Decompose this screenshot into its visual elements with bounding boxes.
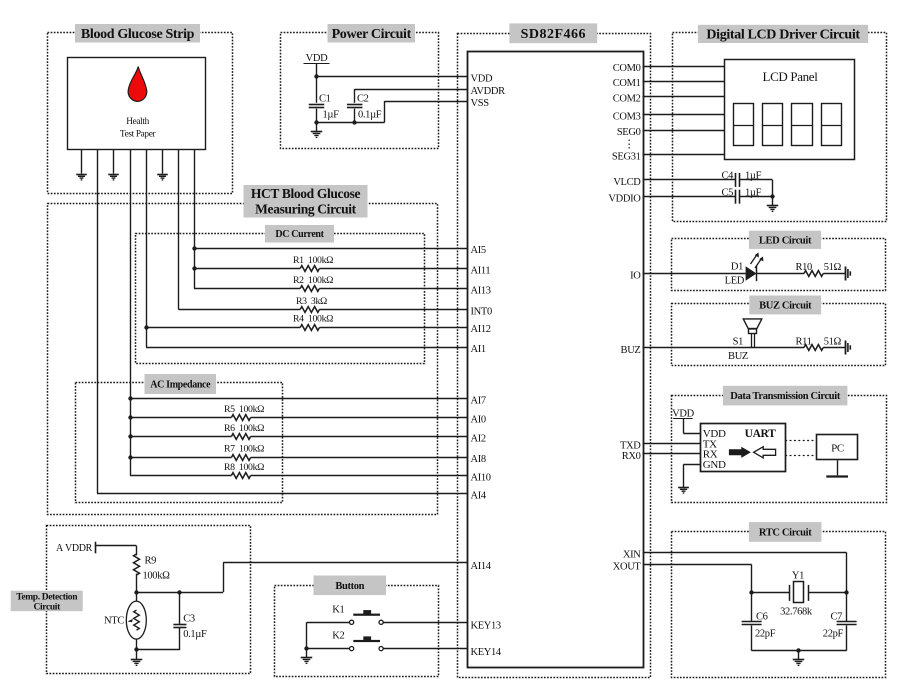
- push button K1: [332, 604, 383, 624]
- ground power circuit: [311, 122, 322, 137]
- svg-text:AI0: AI0: [471, 415, 486, 426]
- label RTC Circuit: [749, 522, 822, 542]
- pin ellipsis between SEG0 and SEG31: [624, 139, 635, 151]
- svg-text:XIN: XIN: [623, 550, 641, 561]
- svg-text:HCT Blood Glucose: HCT Blood Glucose: [251, 186, 361, 201]
- label Button: [314, 576, 387, 596]
- svg-text:R4 100kΩ: R4 100kΩ: [293, 314, 333, 325]
- svg-text:NTC: NTC: [104, 616, 124, 627]
- svg-text:Temp. Detection: Temp. Detection: [16, 593, 78, 603]
- wire R9 to NTC node: [136, 574, 138, 602]
- wire AI1 row: [146, 347, 467, 349]
- LED D1: [725, 253, 764, 287]
- capacitor C1: [309, 94, 339, 121]
- resistor R8 100k&#937;: [224, 462, 264, 478]
- svg-text:Digital LCD Driver Circuit: Digital LCD Driver Circuit: [706, 28, 860, 43]
- pin label RX0: [622, 451, 641, 462]
- label HCT Blood Glucose Measuring Circuit: [244, 185, 368, 218]
- svg-text:BUZ: BUZ: [728, 351, 748, 362]
- svg-text:AI8: AI8: [471, 454, 486, 465]
- pin label AI8: [471, 454, 486, 465]
- pin label AVDDR: [471, 86, 506, 97]
- pin label KEY13: [471, 621, 501, 632]
- svg-text:C5: C5: [721, 187, 733, 198]
- svg-text:32.768k: 32.768k: [780, 607, 813, 618]
- dashed link UART to PC upper: [785, 440, 817, 442]
- wire AI0 row right: [251, 417, 467, 419]
- resistor R10 51&#937;: [796, 262, 842, 276]
- svg-text:C6: C6: [756, 612, 768, 623]
- junction crystal left: [749, 590, 753, 594]
- svg-text:22pF: 22pF: [755, 629, 776, 640]
- svg-text:VLCD: VLCD: [613, 177, 641, 188]
- svg-text:A VDDR: A VDDR: [56, 543, 93, 554]
- strip contact wire 1: [81, 149, 83, 174]
- label Digital LCD Driver Circuit: [698, 25, 868, 43]
- wire C4 to ground bus: [739, 180, 772, 197]
- junction NTC top node: [134, 590, 138, 594]
- wire LED to R10: [757, 273, 804, 275]
- pin label IO: [630, 271, 641, 282]
- svg-text:AI14: AI14: [471, 561, 492, 572]
- push button K2: [332, 631, 383, 651]
- pin label AI0: [471, 415, 486, 426]
- svg-text:AI5: AI5: [471, 245, 486, 256]
- LED Circuit section box: [672, 239, 886, 291]
- LCD digit segment 4: [821, 104, 841, 146]
- svg-text:AI13: AI13: [471, 286, 491, 297]
- IC U1 SD82F466 body: [468, 52, 644, 668]
- svg-text:Test Paper: Test Paper: [120, 129, 157, 139]
- blood drop icon: [128, 67, 147, 102]
- svg-text:COM0: COM0: [613, 63, 641, 74]
- wire K1 to KEY13: [383, 622, 467, 624]
- wire NTC node to AI14: [136, 563, 467, 593]
- junction AI7 row: [128, 396, 132, 400]
- dashed link UART to PC lower: [785, 455, 817, 457]
- wire RTC ground bus: [752, 650, 847, 652]
- resistor R7 100k&#937;: [224, 444, 264, 461]
- junction NTC bottom node: [134, 647, 138, 651]
- svg-text:51Ω: 51Ω: [824, 336, 842, 347]
- HCT Blood Glucose Measuring Circuit section box: [48, 204, 438, 515]
- junction AI12 row: [144, 325, 148, 329]
- BUZ Circuit section box: [672, 304, 886, 366]
- ground LCD driver: [767, 197, 778, 212]
- Button section box: [275, 586, 439, 677]
- pin label COM0: [613, 63, 641, 74]
- junction AI2 row: [128, 434, 132, 438]
- ground UART: [678, 488, 689, 494]
- svg-text:K2: K2: [332, 631, 344, 642]
- label Power Circuit: [328, 24, 416, 43]
- wire INT0 row left: [179, 309, 301, 311]
- pin label COM2: [613, 94, 641, 105]
- svg-text:SD82F466: SD82F466: [521, 27, 586, 42]
- capacitor C4 1uF: [721, 171, 761, 187]
- ground at strip contact 6: [157, 175, 168, 180]
- svg-text:Data Transmission Circuit: Data Transmission Circuit: [730, 391, 841, 402]
- Digital LCD Driver Circuit section box: [673, 33, 887, 222]
- UART data arrow left: [754, 447, 776, 458]
- svg-text:R10: R10: [796, 262, 813, 273]
- svg-text:AI7: AI7: [471, 396, 486, 407]
- svg-text:INT0: INT0: [471, 307, 492, 318]
- wire AI2 row right: [251, 436, 467, 438]
- wire AI12 row left: [146, 327, 300, 329]
- svg-text:R9: R9: [145, 556, 157, 567]
- junction RTC ground: [796, 648, 800, 652]
- ground BUZ circuit: [846, 341, 851, 355]
- svg-text:R8 100kΩ: R8 100kΩ: [224, 462, 264, 473]
- blood glucose strip body: [68, 58, 206, 150]
- pin label VDDIO: [608, 194, 641, 205]
- strip contact wire 7 to INT0 resistor: [178, 149, 180, 310]
- resistor R9 100k&#937;: [134, 554, 171, 582]
- strip text Health Test Paper: [120, 117, 157, 139]
- svg-text:LCD Panel: LCD Panel: [763, 69, 819, 84]
- wire COM3: [643, 114, 725, 116]
- capacitor C2: [347, 94, 382, 121]
- label SD82F466: [509, 23, 597, 43]
- svg-text:R5 100kΩ: R5 100kΩ: [224, 404, 264, 415]
- LCD digit segment 2: [762, 104, 782, 146]
- PC terminal: [817, 435, 858, 477]
- pin label AI14: [471, 561, 492, 572]
- resistor R4 100k&#937;: [293, 314, 333, 331]
- pin label INT0: [471, 307, 492, 318]
- pin label AI11: [471, 266, 491, 277]
- svg-text:22pF: 22pF: [823, 629, 844, 640]
- svg-text:BUZ Circuit: BUZ Circuit: [759, 301, 812, 312]
- svg-text:LED Circuit: LED Circuit: [759, 235, 812, 246]
- svg-text:R6 100kΩ: R6 100kΩ: [224, 423, 264, 434]
- wire AI13 row left: [194, 288, 300, 290]
- pin label XOUT: [613, 562, 642, 573]
- svg-text:XOUT: XOUT: [613, 562, 642, 573]
- pin label SEG31: [612, 152, 641, 163]
- wire AI5 row: [194, 248, 467, 250]
- pin label AI5: [471, 245, 486, 256]
- svg-text:Blood Glucose Strip: Blood Glucose Strip: [81, 27, 195, 42]
- svg-text:Circuit: Circuit: [33, 603, 61, 613]
- net label VDD UART: [672, 408, 694, 419]
- svg-text:Y1: Y1: [792, 571, 804, 582]
- Temp. Detection Circuit section box: [47, 526, 251, 674]
- pin label AI10: [471, 473, 491, 484]
- svg-text:COM3: COM3: [613, 112, 641, 123]
- svg-text:AI11: AI11: [471, 266, 491, 277]
- junction AI5 row: [192, 246, 196, 250]
- ground temp detection: [131, 650, 142, 665]
- pin label XIN: [623, 550, 641, 561]
- svg-text:AI10: AI10: [471, 473, 491, 484]
- label DC Current: [265, 225, 334, 243]
- resistor R6 100k&#937;: [224, 423, 264, 439]
- svg-text:VDD: VDD: [672, 408, 694, 419]
- wire A VDDR to R9: [96, 546, 137, 556]
- Blood Glucose Strip section box: [48, 33, 233, 194]
- svg-text:VSS: VSS: [471, 98, 490, 109]
- svg-text:GND: GND: [703, 459, 726, 471]
- ground LED circuit: [846, 267, 851, 281]
- wire C2 bottom: [354, 109, 356, 123]
- UART data arrow right: [729, 447, 751, 458]
- wire VDDIO row: [643, 196, 736, 198]
- junction AI0 row: [128, 415, 132, 419]
- pin label AI13: [471, 286, 491, 297]
- resistor R2 100k&#937;: [293, 275, 333, 291]
- wire AI10 row left: [130, 475, 231, 477]
- wire AI12 row right: [319, 327, 467, 329]
- LCD panel body: [725, 60, 855, 160]
- pin label BUZ: [621, 345, 641, 356]
- label BUZ Circuit: [749, 296, 821, 315]
- wire AI11 row right: [319, 268, 467, 270]
- wire VDD to UART: [683, 418, 700, 433]
- label Data Transmission Circuit: [723, 386, 848, 406]
- SD82F466 section box: [458, 34, 651, 678]
- svg-text:AI12: AI12: [471, 324, 491, 335]
- svg-text:KEY13: KEY13: [471, 621, 501, 632]
- AC Impedance section box: [76, 383, 283, 503]
- svg-text:AI1: AI1: [471, 344, 486, 355]
- wire AVDDR to C2: [355, 89, 468, 103]
- Data Transmission Circuit section box: [672, 396, 887, 503]
- wire VLCD row: [643, 179, 736, 181]
- svg-text:R11: R11: [796, 336, 812, 347]
- wire K2 to KEY14: [383, 648, 467, 650]
- junction LCD ground bus: [770, 194, 774, 198]
- svg-text:Power Circuit: Power Circuit: [332, 27, 412, 42]
- svg-text:IO: IO: [630, 271, 641, 282]
- ground RTC: [793, 651, 804, 666]
- svg-text:SEG31: SEG31: [612, 152, 641, 163]
- svg-text:LED: LED: [725, 276, 745, 287]
- svg-text:100kΩ: 100kΩ: [143, 571, 171, 582]
- svg-text:DC Current: DC Current: [275, 229, 324, 240]
- net label A VDDR: [56, 542, 95, 554]
- wire BUZ row: [643, 347, 805, 349]
- wire AI7 row: [130, 398, 467, 400]
- wire AI11 row left: [194, 268, 300, 270]
- strip contact wire 6: [162, 149, 164, 174]
- label Blood Glucose Strip: [75, 24, 200, 43]
- resistor R3 3k&#937;: [296, 296, 327, 312]
- junction AI11 row: [192, 266, 196, 270]
- svg-text:Measuring Circuit: Measuring Circuit: [255, 202, 357, 217]
- pin label AI2: [471, 434, 486, 445]
- DC Current section box: [136, 234, 425, 364]
- wire R10 to ground: [823, 273, 845, 275]
- wire COM1: [643, 81, 725, 83]
- strip contact wire 2 to AI4 net: [97, 149, 467, 494]
- wire TXD to UART TX: [643, 443, 701, 445]
- wire R11 to ground: [823, 347, 845, 349]
- pin label VLCD: [613, 177, 641, 188]
- svg-text:AI2: AI2: [471, 434, 486, 445]
- svg-text:0.1µF: 0.1µF: [358, 110, 382, 121]
- svg-text:Health: Health: [126, 117, 149, 127]
- strip contact wire 3: [113, 149, 115, 174]
- wire NTC bottom: [136, 639, 180, 650]
- strip contact wire 8 to AI5 net: [194, 149, 196, 289]
- svg-text:SEG0: SEG0: [617, 127, 641, 138]
- strip contact wire 5 to DC bus: [146, 149, 148, 347]
- svg-text:PC: PC: [831, 442, 844, 454]
- net label VDD power: [304, 53, 330, 64]
- capacitor C7 22pF: [823, 593, 857, 651]
- LCD digit segment 3: [791, 104, 812, 146]
- wire K1 left to ground bus: [307, 622, 350, 648]
- strip contact wire 4 to AC impedance bus: [130, 149, 132, 476]
- wire SEG31: [643, 154, 725, 156]
- wire VDD rail: [317, 64, 468, 103]
- wire AI8 row right: [251, 457, 467, 459]
- wire XOUT to crystal: [643, 565, 752, 593]
- resistor R11 51&#937;: [796, 336, 842, 350]
- wire SEG0: [643, 130, 725, 132]
- pin label COM3: [613, 112, 641, 123]
- thermistor NTC: [104, 601, 146, 639]
- wire XIN to crystal: [643, 553, 847, 593]
- label AC Impedance: [145, 374, 217, 394]
- svg-text:COM1: COM1: [613, 78, 641, 89]
- svg-text:KEY14: KEY14: [471, 647, 502, 658]
- wire AI10 row right: [251, 475, 467, 477]
- svg-text:1µF: 1µF: [323, 110, 340, 121]
- svg-text:0.1µF: 0.1µF: [183, 629, 207, 640]
- junction C3 top: [177, 590, 181, 594]
- wire COM2: [643, 96, 725, 98]
- svg-text:VDDIO: VDDIO: [608, 194, 641, 205]
- svg-text:UART: UART: [745, 428, 776, 440]
- pin label AI4: [471, 491, 487, 502]
- RTC Circuit section box: [672, 532, 886, 678]
- Power Circuit section box: [281, 33, 439, 149]
- pin label SEG0: [617, 127, 641, 138]
- svg-text:Button: Button: [335, 581, 364, 592]
- ground at strip contact 3: [108, 175, 119, 180]
- pin label COM1: [613, 78, 641, 89]
- crystal Y1 32.768k: [752, 571, 847, 618]
- wire AI0 row left: [130, 417, 231, 419]
- junction AI8 row: [128, 455, 132, 459]
- resistor R5 100k&#937;: [224, 404, 264, 420]
- svg-text:R1 100kΩ: R1 100kΩ: [293, 255, 333, 266]
- capacitor C6 22pF: [742, 593, 776, 651]
- svg-text:VDD: VDD: [471, 73, 493, 84]
- wire COM0: [643, 66, 725, 68]
- label LED Circuit: [749, 231, 821, 249]
- wire AI2 row left: [130, 436, 231, 438]
- svg-text:⋮: ⋮: [624, 139, 635, 151]
- junction button ground bus: [304, 646, 308, 650]
- svg-text:RTC Circuit: RTC Circuit: [759, 528, 812, 539]
- svg-text:COM2: COM2: [613, 94, 641, 105]
- resistor R1 100k&#937;: [293, 255, 333, 271]
- pin label AI7: [471, 396, 486, 407]
- junction crystal right: [844, 590, 848, 594]
- svg-text:K1: K1: [332, 604, 344, 615]
- junction VDD rail: [314, 74, 318, 78]
- UART module U2: [701, 424, 786, 472]
- svg-text:51Ω: 51Ω: [824, 262, 842, 273]
- wire IO to LED: [643, 273, 746, 275]
- svg-text:AC Impedance: AC Impedance: [150, 379, 211, 390]
- svg-text:C7: C7: [830, 612, 842, 623]
- LCD digit segment 1: [733, 104, 753, 146]
- capacitor C3 0.1uF: [173, 592, 207, 650]
- wire K2 left: [307, 648, 350, 650]
- capacitor C5 1uF: [721, 187, 761, 203]
- ground at strip contact 1: [76, 175, 87, 180]
- svg-text:AVDDR: AVDDR: [471, 86, 506, 97]
- wire UART GND: [683, 465, 700, 488]
- svg-text:C2: C2: [357, 94, 369, 105]
- wire C5 to ground bus: [739, 196, 772, 198]
- svg-text:R3 3kΩ: R3 3kΩ: [296, 296, 327, 307]
- svg-text:C1: C1: [319, 94, 331, 105]
- svg-text:D1: D1: [731, 262, 743, 273]
- pin label AI12: [471, 324, 491, 335]
- junction C1 bottom: [314, 120, 318, 124]
- pin label TXD: [620, 441, 641, 452]
- wire VSS: [385, 101, 468, 122]
- pin label VSS: [471, 98, 490, 109]
- pin label AI1: [471, 344, 486, 355]
- pin label VDD: [471, 73, 493, 84]
- wire AI13 row right: [319, 288, 467, 290]
- svg-text:C3: C3: [183, 614, 195, 625]
- ground button circuit: [301, 649, 312, 664]
- svg-text:C4: C4: [721, 171, 734, 182]
- wire C1 bottom: [317, 109, 385, 123]
- buzzer S1: [728, 319, 762, 362]
- pin label KEY14: [471, 647, 502, 658]
- junction C2 bottom: [352, 120, 356, 124]
- label Temp. Detection Circuit: [11, 591, 83, 613]
- svg-text:BUZ: BUZ: [621, 345, 641, 356]
- svg-text:S1: S1: [733, 337, 743, 348]
- svg-text:RX0: RX0: [622, 451, 641, 462]
- svg-text:VDD: VDD: [306, 53, 328, 64]
- svg-text:AI4: AI4: [471, 491, 487, 502]
- svg-text:R7 100kΩ: R7 100kΩ: [224, 444, 264, 455]
- svg-text:R2 100kΩ: R2 100kΩ: [293, 275, 333, 286]
- wire RX0 to UART RX: [643, 453, 701, 455]
- wire INT0 row right: [319, 309, 467, 311]
- wire AI8 row left: [130, 457, 231, 459]
